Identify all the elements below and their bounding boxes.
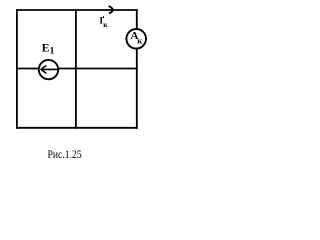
wire right edge: [136, 9, 138, 129]
wire middle vertical: [75, 9, 77, 129]
svg-text:Рис.1.25: Рис.1.25: [48, 148, 82, 161]
wire left edge: [16, 9, 18, 129]
svg-text:E: E: [42, 41, 50, 54]
wire bottom edge: [16, 127, 138, 129]
source E1: [39, 60, 58, 79]
wire top edge: [16, 9, 138, 11]
svg-text:1: 1: [50, 45, 55, 56]
ammeter Ak: [126, 29, 146, 49]
svg-text:к: к: [137, 36, 142, 46]
current arrow I'k on top wire: [109, 6, 113, 14]
arrow inside E1: [41, 68, 57, 70]
svg-text:к: к: [103, 20, 108, 29]
wire middle horizontal: [16, 68, 138, 70]
